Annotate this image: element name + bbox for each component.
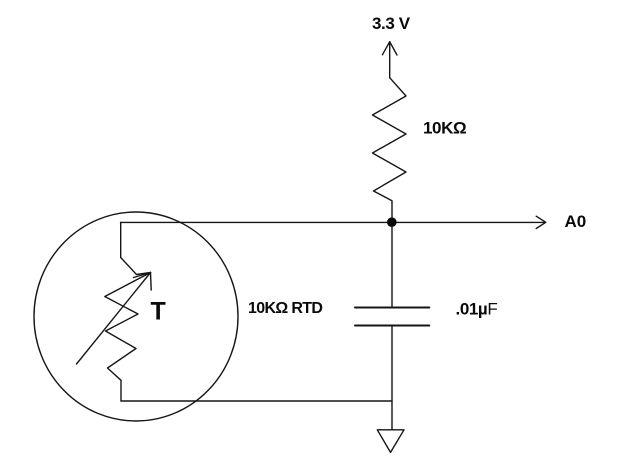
capacitor C1 value label .01µF (456, 300, 498, 319)
thermistor arrow shaft (77, 273, 151, 365)
wire horizontal node to A0 (121, 221, 546, 223)
resistor R1 value label 10KΩ (423, 119, 466, 138)
svg-text:T: T (151, 298, 166, 326)
svg-text:.01µF: .01µF (456, 300, 498, 319)
svg-text:3.3 V: 3.3 V (372, 14, 411, 33)
svg-text:A0: A0 (565, 212, 587, 231)
wire thermistor top lead (120, 222, 122, 257)
net 3.3V label (372, 14, 411, 33)
ground (377, 430, 404, 453)
A0 arrowhead (536, 216, 546, 228)
thermistor RT1 zigzag element (105, 258, 151, 402)
svg-text:10KΩ: 10KΩ (423, 119, 466, 138)
3.3V supply arrow (382, 42, 397, 78)
thermistor value label 10KΩ RTD (248, 300, 322, 317)
wire node to capacitor top (391, 227, 393, 307)
svg-text:10KΩ RTD: 10KΩ RTD (248, 300, 322, 317)
node junction dot (387, 217, 397, 227)
wire bottom return (121, 400, 392, 402)
net A0 label (565, 212, 587, 231)
thermistor arrowhead (134, 273, 152, 291)
thermistor circle outline (34, 212, 238, 421)
wire capacitor bottom to ground (391, 327, 393, 430)
capacitor C1 (355, 308, 429, 326)
thermistor T label (151, 298, 166, 326)
resistor R1 (373, 78, 407, 218)
